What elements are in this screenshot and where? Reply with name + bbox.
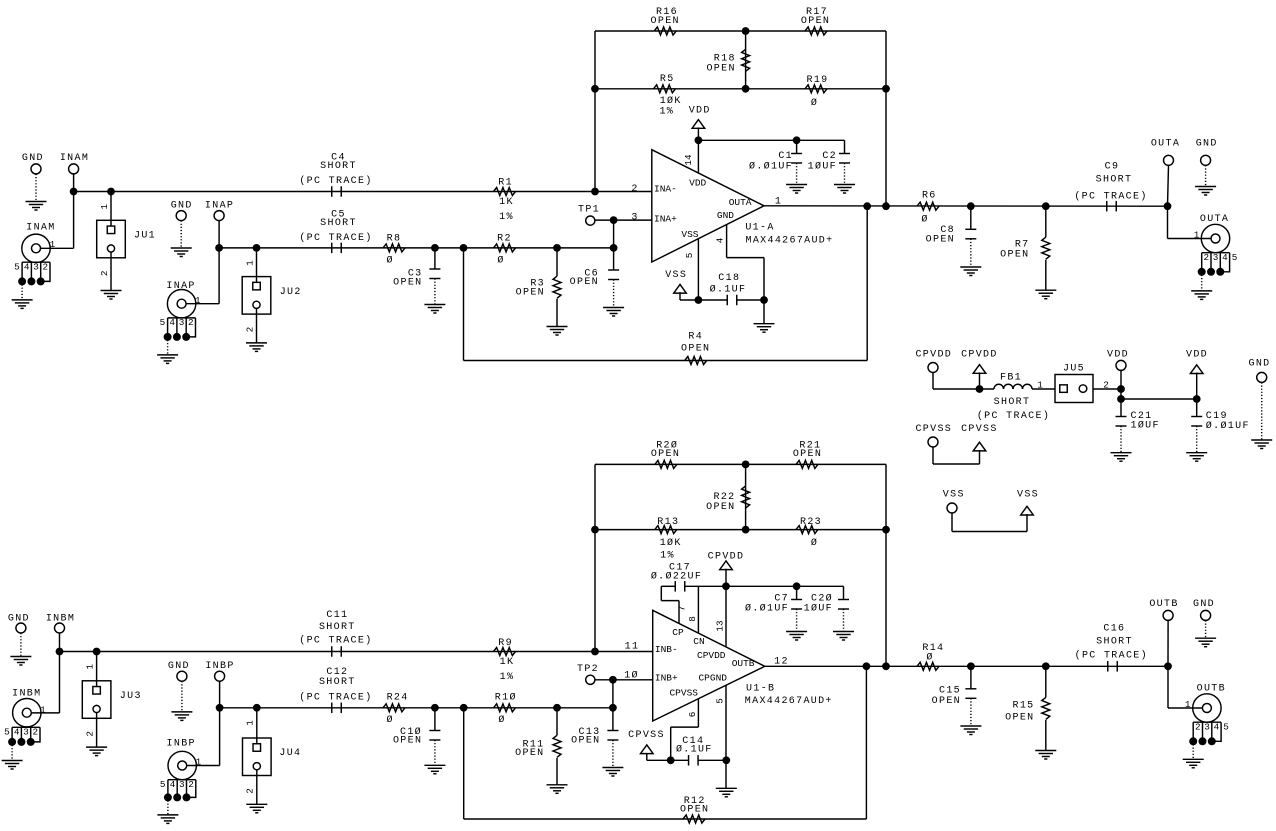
svg-text:7: 7 (677, 606, 688, 612)
svg-text:SHORT: SHORT (319, 622, 356, 633)
svg-text:C11: C11 (326, 610, 348, 621)
svg-text:Ø: Ø (387, 714, 394, 726)
svg-text:1: 1 (1037, 380, 1043, 391)
svg-text:1ØK: 1ØK (660, 95, 682, 107)
svg-text:3: 3 (179, 779, 185, 790)
svg-text:INB+: INB+ (655, 673, 678, 684)
svg-text:SHORT: SHORT (1096, 175, 1133, 186)
svg-text:2: 2 (188, 779, 194, 790)
svg-text:1: 1 (244, 260, 255, 266)
svg-text:INA+: INA+ (654, 214, 677, 225)
svg-text:(PC TRACE): (PC TRACE) (1074, 191, 1147, 203)
svg-text:OUTB: OUTB (732, 658, 755, 669)
svg-text:GND: GND (1193, 599, 1215, 610)
svg-text:4: 4 (1222, 252, 1228, 263)
svg-text:1: 1 (1194, 230, 1200, 241)
svg-text:R5: R5 (660, 74, 675, 85)
svg-text:INB-: INB- (655, 644, 678, 655)
svg-text:2: 2 (1204, 252, 1210, 263)
svg-text:1: 1 (99, 203, 110, 209)
svg-text:OPEN: OPEN (1000, 250, 1029, 261)
svg-text:INBP: INBP (205, 661, 234, 672)
svg-text:Ø: Ø (926, 651, 933, 663)
svg-text:CPVSS: CPVSS (669, 688, 698, 699)
svg-text:R24: R24 (387, 692, 409, 703)
svg-text:Ø.Ø22UF: Ø.Ø22UF (651, 571, 702, 583)
svg-text:(PC TRACE): (PC TRACE) (977, 410, 1050, 422)
svg-text:MAX44267AUD+: MAX44267AUD+ (746, 235, 834, 246)
svg-text:SHORT: SHORT (319, 677, 356, 688)
svg-text:Ø.Ø1UF: Ø.Ø1UF (1206, 420, 1250, 432)
svg-text:GND: GND (168, 661, 190, 672)
svg-text:U1-B: U1-B (746, 684, 775, 695)
svg-text:Ø.Ø1UF: Ø.Ø1UF (745, 603, 789, 615)
svg-text:C9: C9 (1105, 162, 1120, 173)
svg-text:OPEN: OPEN (706, 64, 735, 75)
svg-text:INAP: INAP (166, 281, 195, 292)
svg-text:R23: R23 (800, 517, 822, 528)
svg-text:4: 4 (170, 779, 176, 790)
svg-text:Ø: Ø (921, 214, 928, 226)
svg-text:3: 3 (23, 727, 29, 738)
svg-text:5: 5 (1223, 721, 1229, 732)
svg-text:5: 5 (160, 317, 166, 328)
svg-text:C16: C16 (1103, 624, 1125, 635)
svg-text:Ø: Ø (497, 255, 504, 267)
svg-text:1: 1 (195, 295, 201, 306)
svg-text:OPEN: OPEN (926, 235, 955, 246)
svg-text:GND: GND (1196, 138, 1218, 149)
svg-text:OUTA: OUTA (1151, 138, 1180, 149)
svg-text:2: 2 (84, 731, 95, 737)
svg-text:CPVSS: CPVSS (628, 730, 665, 741)
svg-text:1: 1 (245, 720, 256, 726)
svg-text:4: 4 (714, 237, 725, 243)
svg-text:1%: 1% (500, 672, 515, 683)
svg-text:R9: R9 (498, 638, 513, 649)
svg-text:1ØUF: 1ØUF (804, 603, 833, 615)
svg-text:11: 11 (625, 642, 640, 653)
svg-text:(PC TRACE): (PC TRACE) (299, 635, 372, 647)
svg-text:JU1: JU1 (134, 231, 156, 242)
svg-text:R1Ø: R1Ø (495, 691, 517, 703)
svg-text:INAM: INAM (26, 223, 55, 234)
svg-text:1ØUF: 1ØUF (808, 161, 837, 173)
svg-text:1: 1 (196, 757, 202, 768)
svg-text:R2: R2 (497, 233, 512, 244)
svg-text:2: 2 (99, 271, 110, 277)
svg-text:SHORT: SHORT (320, 161, 357, 172)
svg-text:3: 3 (1213, 252, 1219, 263)
svg-text:OPEN: OPEN (651, 449, 680, 460)
svg-text:OPEN: OPEN (680, 805, 709, 816)
svg-text:1: 1 (84, 663, 95, 669)
svg-text:Ø: Ø (811, 537, 818, 549)
svg-text:JU5: JU5 (1063, 364, 1085, 375)
svg-text:1%: 1% (659, 107, 674, 118)
svg-text:1: 1 (1185, 699, 1191, 710)
svg-text:3: 3 (631, 213, 638, 224)
svg-text:OUTB: OUTB (1197, 684, 1226, 695)
svg-text:CPVSS: CPVSS (915, 424, 952, 435)
svg-text:GND: GND (22, 153, 44, 164)
svg-text:R6: R6 (922, 191, 937, 202)
svg-text:R1: R1 (498, 178, 513, 189)
svg-text:Ø.1UF: Ø.1UF (676, 744, 713, 756)
svg-text:OPEN: OPEN (932, 696, 961, 707)
svg-text:R15: R15 (1013, 701, 1035, 712)
svg-text:MAX44267AUD+: MAX44267AUD+ (745, 696, 833, 707)
svg-text:(PC TRACE): (PC TRACE) (299, 691, 372, 703)
svg-text:R19: R19 (807, 75, 829, 86)
svg-text:GND: GND (717, 210, 734, 221)
svg-text:CN: CN (693, 636, 704, 647)
svg-text:3: 3 (33, 261, 39, 272)
svg-text:VSS: VSS (943, 490, 965, 501)
svg-text:VSS: VSS (1017, 490, 1039, 501)
svg-text:INA-: INA- (654, 183, 677, 194)
svg-text:2: 2 (33, 727, 39, 738)
svg-text:SHORT: SHORT (1096, 636, 1133, 647)
svg-text:5: 5 (14, 261, 20, 272)
svg-text:JU3: JU3 (120, 691, 142, 702)
svg-text:VSS: VSS (665, 270, 687, 281)
svg-text:1ØUF: 1ØUF (1131, 420, 1160, 432)
svg-text:OUTA: OUTA (1200, 214, 1229, 225)
svg-text:2: 2 (43, 261, 49, 272)
svg-text:VDD: VDD (1107, 350, 1129, 361)
svg-text:1%: 1% (660, 551, 675, 562)
svg-text:R13: R13 (657, 517, 679, 528)
svg-text:OPEN: OPEN (793, 449, 822, 460)
svg-text:(PC TRACE): (PC TRACE) (299, 175, 372, 187)
svg-text:CPVDD: CPVDD (961, 350, 998, 361)
svg-text:5: 5 (715, 698, 726, 704)
svg-text:OPEN: OPEN (393, 278, 422, 289)
svg-text:VSS: VSS (681, 229, 698, 240)
svg-text:OUTB: OUTB (1149, 599, 1178, 610)
svg-text:OPEN: OPEN (570, 277, 599, 288)
svg-text:8: 8 (687, 616, 698, 622)
svg-text:3: 3 (179, 317, 185, 328)
svg-text:1: 1 (40, 704, 46, 715)
svg-text:OPEN: OPEN (706, 502, 735, 513)
svg-text:2: 2 (631, 184, 638, 195)
svg-text:CPVSS: CPVSS (961, 424, 998, 435)
svg-text:OUTA: OUTA (729, 197, 752, 208)
svg-text:14: 14 (683, 154, 694, 166)
svg-text:3: 3 (1204, 721, 1210, 732)
svg-text:2: 2 (1195, 721, 1201, 732)
svg-text:R8: R8 (387, 233, 402, 244)
svg-text:GND: GND (1249, 359, 1271, 370)
svg-text:(PC TRACE): (PC TRACE) (1075, 649, 1148, 661)
svg-text:4: 4 (1214, 721, 1220, 732)
svg-text:1ØK: 1ØK (660, 537, 682, 549)
svg-text:FB1: FB1 (1000, 373, 1022, 384)
svg-text:C18: C18 (718, 273, 740, 284)
svg-text:CPVDD: CPVDD (915, 350, 952, 361)
svg-text:OPEN: OPEN (1005, 712, 1034, 723)
svg-text:JU4: JU4 (279, 748, 301, 759)
svg-text:INAM: INAM (60, 153, 89, 164)
svg-text:5: 5 (4, 727, 10, 738)
svg-text:2: 2 (244, 327, 255, 333)
svg-text:4: 4 (24, 261, 30, 272)
svg-text:OPEN: OPEN (516, 288, 545, 299)
svg-text:OPEN: OPEN (651, 16, 680, 27)
svg-text:Ø.Ø1UF: Ø.Ø1UF (749, 161, 793, 173)
svg-text:Ø: Ø (811, 97, 818, 109)
svg-text:VDD: VDD (689, 105, 711, 116)
svg-text:Ø.1UF: Ø.1UF (710, 284, 747, 296)
svg-text:(PC TRACE): (PC TRACE) (299, 232, 372, 244)
svg-text:13: 13 (715, 620, 726, 631)
svg-text:4: 4 (14, 727, 20, 738)
svg-text:TP2: TP2 (577, 664, 599, 675)
svg-text:CPGND: CPGND (698, 673, 727, 684)
svg-text:OPEN: OPEN (571, 735, 600, 746)
svg-text:CP: CP (672, 627, 684, 638)
svg-text:Ø: Ø (387, 255, 394, 267)
svg-text:1: 1 (50, 239, 56, 250)
svg-text:OPEN: OPEN (801, 16, 830, 27)
svg-text:OPEN: OPEN (515, 748, 544, 759)
svg-text:SHORT: SHORT (994, 397, 1031, 408)
svg-text:1Ø: 1Ø (624, 670, 639, 682)
svg-text:CPVDD: CPVDD (697, 650, 726, 661)
svg-text:VDD: VDD (1186, 350, 1208, 361)
svg-text:5: 5 (1232, 252, 1238, 263)
svg-text:1%: 1% (499, 212, 514, 223)
svg-text:5: 5 (160, 779, 166, 790)
svg-text:Ø: Ø (498, 714, 505, 726)
svg-text:R4: R4 (688, 332, 703, 343)
svg-text:VDD: VDD (689, 178, 706, 189)
svg-text:5: 5 (684, 253, 695, 259)
svg-text:INBP: INBP (167, 738, 196, 749)
svg-text:6: 6 (687, 712, 698, 718)
svg-text:OPEN: OPEN (681, 344, 710, 355)
svg-text:1K: 1K (499, 197, 514, 208)
svg-text:4: 4 (169, 317, 175, 328)
svg-text:OPEN: OPEN (393, 735, 422, 746)
svg-text:JU2: JU2 (280, 287, 302, 298)
svg-text:TP1: TP1 (578, 204, 600, 215)
svg-text:2: 2 (245, 788, 256, 794)
svg-text:1K: 1K (500, 657, 515, 668)
svg-text:C15: C15 (939, 685, 961, 696)
svg-text:U1-A: U1-A (745, 223, 774, 234)
svg-text:2: 2 (188, 317, 194, 328)
svg-text:SHORT: SHORT (320, 218, 357, 229)
